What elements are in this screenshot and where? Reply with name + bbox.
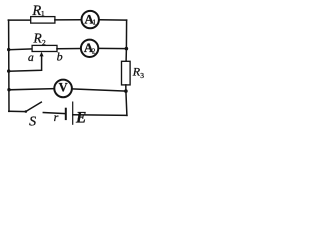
svg-text:2: 2: [42, 38, 46, 47]
svg-text:R: R: [31, 3, 41, 19]
svg-text:2: 2: [92, 47, 96, 55]
svg-text:1: 1: [93, 19, 97, 27]
svg-text:b: b: [57, 50, 63, 64]
svg-text:3: 3: [140, 71, 144, 80]
svg-text:S: S: [29, 114, 36, 129]
svg-text:r: r: [54, 110, 59, 124]
svg-text:a: a: [28, 52, 34, 64]
svg-text:V: V: [59, 80, 68, 94]
svg-text:1: 1: [41, 9, 45, 18]
svg-text:E: E: [75, 110, 86, 127]
svg-text:R: R: [33, 31, 43, 46]
